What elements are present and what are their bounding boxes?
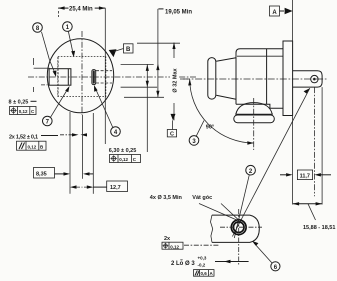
svg-text:0,6: 0,6 bbox=[201, 271, 208, 276]
svg-text:25,4 Min: 25,4 Min bbox=[69, 7, 93, 13]
svg-text:0,12: 0,12 bbox=[19, 109, 28, 114]
svg-text:11,7: 11,7 bbox=[300, 174, 310, 180]
svg-text:+0,3: +0,3 bbox=[198, 256, 207, 261]
svg-text:-0,2: -0,2 bbox=[198, 263, 206, 268]
svg-text:19,05 Min: 19,05 Min bbox=[165, 9, 192, 15]
svg-text:B: B bbox=[126, 47, 131, 53]
svg-text:0,12: 0,12 bbox=[170, 244, 179, 249]
svg-text:C: C bbox=[170, 132, 174, 138]
svg-text:12,7: 12,7 bbox=[110, 185, 121, 191]
svg-text:15,88 - 18,51: 15,88 - 18,51 bbox=[303, 225, 335, 231]
svg-text:2x: 2x bbox=[164, 236, 171, 242]
svg-text:0,12: 0,12 bbox=[119, 157, 128, 162]
svg-text:0,12: 0,12 bbox=[28, 144, 37, 149]
svg-text:6,30 ± 0,25: 6,30 ± 0,25 bbox=[109, 148, 136, 154]
svg-text:Ø 32 Max: Ø 32 Max bbox=[173, 67, 179, 92]
svg-text:A: A bbox=[272, 10, 277, 16]
svg-text:8 ± 0,25: 8 ± 0,25 bbox=[9, 99, 29, 105]
svg-text:2x 1,52 ± 0,1: 2x 1,52 ± 0,1 bbox=[9, 135, 38, 141]
svg-text:2 Lỗ Ø 3: 2 Lỗ Ø 3 bbox=[171, 260, 195, 267]
svg-text:Vát góc: Vát góc bbox=[192, 195, 212, 201]
svg-text:4x Ø 3,5 Min: 4x Ø 3,5 Min bbox=[150, 195, 183, 201]
svg-text:8,35: 8,35 bbox=[36, 172, 47, 178]
svg-text:90°: 90° bbox=[206, 125, 214, 131]
